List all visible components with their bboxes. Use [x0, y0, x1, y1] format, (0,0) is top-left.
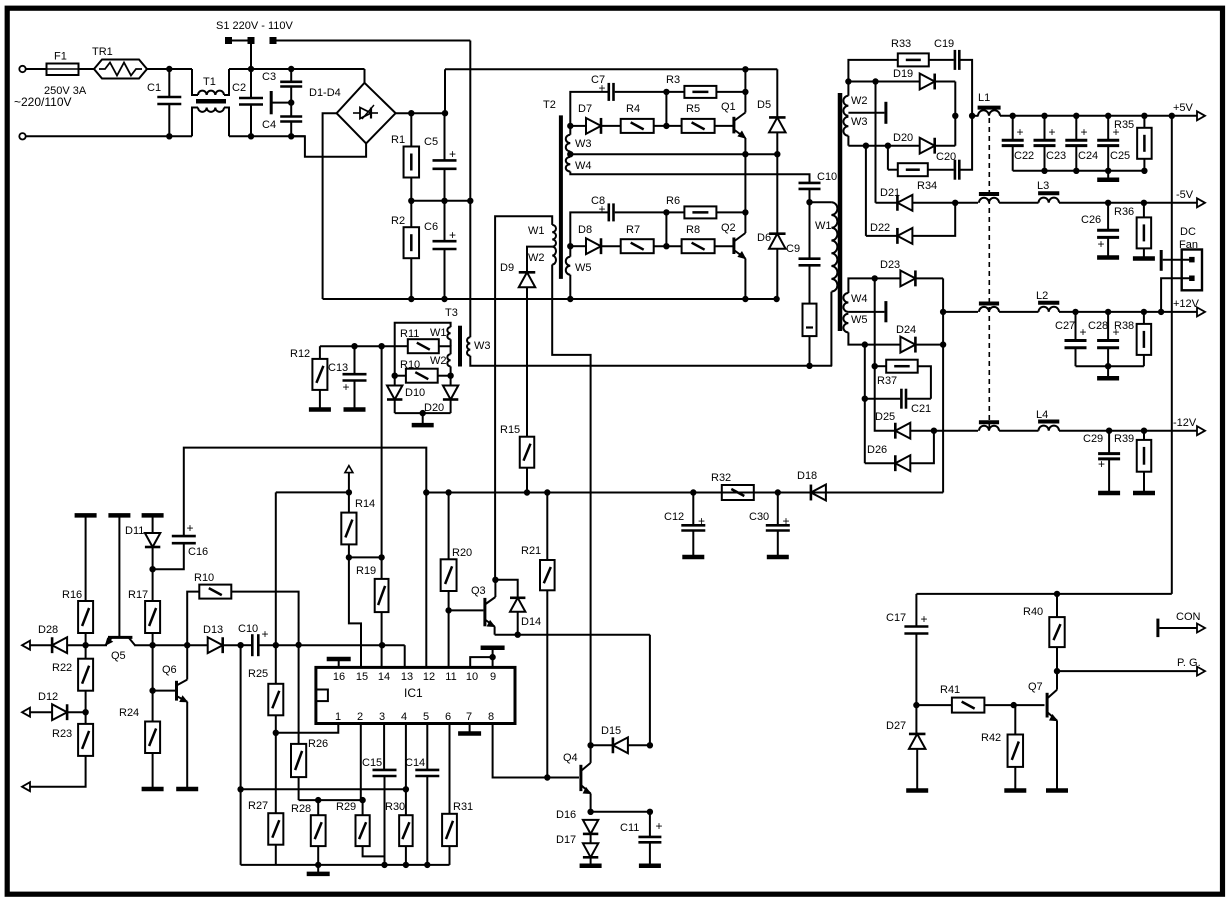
svg-text:DC: DC — [1180, 226, 1196, 238]
resistor R26 — [298, 733, 300, 744]
svg-text:R34: R34 — [917, 180, 937, 192]
resistor R10 control — [187, 592, 199, 646]
C16 bottom wire — [153, 543, 184, 569]
R17 bottom lead — [152, 633, 154, 645]
transistor Q5 — [108, 636, 132, 639]
svg-text:D20: D20 — [893, 132, 913, 144]
svg-text:W3: W3 — [474, 340, 491, 352]
wire R37 right — [918, 366, 931, 399]
+12V rail start — [943, 311, 978, 313]
T3 W3 bottom lead to W5 return wire — [470, 356, 832, 366]
svg-text:C10: C10 — [238, 623, 258, 635]
wire R4 to R5 — [654, 125, 682, 127]
R27 bottom lead — [275, 845, 277, 865]
capacitor C17 — [915, 594, 917, 627]
wire D19 cathode down to L1 — [954, 82, 956, 146]
svg-text:C20: C20 — [936, 151, 956, 163]
svg-text:C4: C4 — [262, 119, 276, 131]
svg-text:R42: R42 — [981, 732, 1001, 744]
resistor R29 — [356, 815, 370, 846]
input terminal bottom — [19, 133, 25, 139]
resistor R30 — [399, 815, 413, 846]
W1 bottom lead — [830, 292, 832, 367]
pin7 ground — [469, 724, 471, 732]
R26 bottom to R28-R29 bus — [298, 777, 300, 800]
svg-text:C14: C14 — [405, 757, 425, 769]
+5V filter ground bus — [1013, 170, 1145, 172]
svg-text:S1 220V - 110V: S1 220V - 110V — [216, 20, 294, 32]
svg-text:D23: D23 — [880, 259, 900, 271]
svg-text:L2: L2 — [1036, 290, 1048, 302]
node loop column top — [238, 643, 243, 648]
svg-text:R30: R30 — [385, 801, 405, 813]
node R3 to Q1 collector column — [743, 89, 748, 94]
wire C4 to bridge AC2 — [291, 136, 366, 156]
svg-text:3: 3 — [379, 711, 385, 723]
resistor R23 — [78, 724, 93, 756]
ground bottom rail — [317, 865, 319, 874]
wire R33 to C19 — [929, 59, 954, 61]
wire D22 up to -5V rail — [912, 203, 955, 236]
wire C8 to R6 node — [615, 211, 685, 213]
transformer T3 core — [458, 326, 462, 367]
svg-text:C23: C23 — [1046, 150, 1066, 162]
wire node to main transformer W1 — [810, 201, 832, 203]
svg-text:D9: D9 — [500, 262, 514, 274]
svg-text:W3: W3 — [575, 138, 592, 150]
svg-text:R24: R24 — [119, 707, 139, 719]
wire D21 to -5V rail — [912, 202, 978, 204]
wire R41 to Q7 base — [984, 704, 1044, 706]
wire Q5 collector to D13 row — [135, 644, 208, 646]
resistor R19 — [375, 579, 389, 612]
Q4 emitter to D16 — [590, 794, 592, 812]
transformer T2 core — [559, 115, 563, 279]
W5 bottom lead to D24 — [848, 332, 900, 344]
svg-text:C25: C25 — [1110, 150, 1130, 162]
wire to D23 — [875, 277, 901, 279]
svg-text:D27: D27 — [886, 720, 906, 732]
svg-text:R2: R2 — [391, 215, 405, 227]
svg-text:+: + — [1016, 125, 1023, 139]
node C9 return on wire — [807, 363, 812, 368]
svg-text:D28: D28 — [38, 624, 58, 636]
svg-text:R4: R4 — [626, 103, 640, 115]
svg-text:R15: R15 — [500, 424, 520, 436]
svg-text:+: + — [655, 819, 662, 833]
svg-text:+: + — [449, 147, 456, 161]
pin4 column — [405, 724, 407, 816]
svg-text:+: + — [598, 81, 605, 95]
Q6 base wire — [153, 690, 175, 692]
capacitor C15 — [373, 769, 397, 772]
diode D22 — [866, 235, 897, 237]
svg-text:C29: C29 — [1083, 433, 1103, 445]
svg-text:R25: R25 — [248, 668, 268, 680]
wire arrow to D28 — [30, 644, 52, 646]
svg-text:C12: C12 — [664, 511, 684, 523]
+12V rail — [999, 311, 1038, 313]
node R4-R5 junction — [664, 123, 669, 128]
svg-text:C1: C1 — [147, 82, 161, 94]
svg-text:C24: C24 — [1078, 150, 1098, 162]
svg-text:12: 12 — [423, 671, 435, 683]
resistor R31 — [442, 814, 457, 846]
R20 to Q3 base node — [448, 591, 450, 667]
T2 winding W4 — [566, 157, 571, 172]
D9 anode lead down to R15 — [526, 287, 528, 436]
transistor Q4 — [579, 765, 582, 791]
R14 to R19 node link — [349, 556, 382, 558]
wire W2 node to D19 — [848, 81, 919, 83]
T3 winding W3 — [467, 337, 470, 356]
wire W2 node down to D21 — [875, 82, 877, 203]
capacitor C11 — [649, 812, 651, 837]
mid rail R1-R2 C5-C6 — [411, 200, 470, 202]
node R21 top — [545, 490, 550, 495]
wire D18 to +12V rectifier column — [826, 492, 943, 494]
diode D26 row — [865, 462, 896, 464]
resistor R25 — [275, 645, 277, 684]
wire arrow to D12 — [30, 711, 52, 713]
svg-text:D24: D24 — [896, 324, 916, 336]
C15 bottom lead — [384, 776, 386, 856]
primary bottom rail — [323, 298, 777, 300]
transistor Q1 — [732, 117, 735, 134]
feedback bus to pin4 — [241, 788, 406, 790]
node W3-W4 tap — [568, 152, 573, 157]
wire bridge negative to bottom rail — [323, 113, 337, 299]
wire Q3 collector to D14 — [495, 580, 517, 598]
wire bridge AC1 top — [364, 69, 366, 83]
svg-text:C5: C5 — [424, 136, 438, 148]
pin16 terminal bar — [338, 659, 340, 667]
svg-text:-5V: -5V — [1176, 189, 1194, 201]
diode D20 output — [920, 138, 935, 154]
svg-text:R26: R26 — [308, 738, 328, 750]
diode D10 — [387, 386, 402, 400]
feedback node wire R12 — [320, 345, 395, 347]
capacitor C21 — [865, 398, 900, 400]
resistor R38 — [1143, 312, 1145, 324]
pin1 wire to R26 — [276, 724, 339, 733]
svg-text:W1: W1 — [815, 220, 832, 232]
transistor Q6 — [175, 681, 178, 701]
R40 bottom to PG node — [1056, 647, 1058, 671]
resistor R7 — [621, 239, 654, 253]
pin3 column to C15 — [383, 724, 385, 770]
capacitor C22 — [1012, 116, 1014, 140]
+12V arrow — [1197, 307, 1205, 316]
svg-text:R27: R27 — [248, 800, 268, 812]
svg-text:1: 1 — [335, 711, 341, 723]
svg-text:R12: R12 — [290, 348, 310, 360]
node C3-C4 midpoint — [289, 100, 294, 105]
row corner down to D15 — [649, 635, 651, 746]
svg-text:C2: C2 — [232, 82, 246, 94]
svg-text:R17: R17 — [128, 589, 148, 601]
diode D14 — [510, 598, 525, 612]
ground at C28 — [1107, 366, 1109, 378]
D17 ground — [590, 857, 592, 864]
svg-text:C27: C27 — [1055, 320, 1075, 332]
svg-text:W1: W1 — [528, 225, 545, 237]
wire input top to fuse — [26, 68, 47, 70]
svg-text:D21: D21 — [880, 187, 900, 199]
svg-text:D18: D18 — [797, 470, 817, 482]
resistor R39 — [1143, 431, 1145, 440]
capacitor C19 — [954, 50, 957, 70]
capacitor C4 — [280, 115, 302, 118]
svg-text:C3: C3 — [262, 71, 276, 83]
svg-text:+: + — [782, 514, 789, 528]
capacitor C8 left leg — [570, 212, 607, 246]
svg-text:R38: R38 — [1114, 320, 1134, 332]
ground bar R39 — [1133, 491, 1155, 496]
diode D11 — [152, 515, 154, 533]
svg-text:Q4: Q4 — [563, 752, 578, 764]
left column D24 to D26 — [864, 345, 866, 464]
resistor R28 top lead — [317, 800, 319, 815]
resistor R40 — [1056, 594, 1058, 617]
Q4 collector from W2 column — [590, 745, 592, 763]
svg-text:+: + — [1080, 125, 1087, 139]
fan connector box — [1182, 250, 1202, 291]
capacitor C9 — [809, 202, 811, 259]
node C4 bottom — [289, 134, 294, 139]
diode D9 — [519, 272, 536, 287]
T2 winding W5 — [566, 257, 571, 275]
wire W3 to D20 — [848, 145, 919, 147]
svg-text:W1: W1 — [430, 327, 447, 339]
wire C10 to W1 node — [809, 189, 811, 202]
diode D12 — [52, 704, 67, 720]
wire C10 to pin13 corner — [259, 644, 404, 646]
R24 ground — [152, 753, 154, 787]
ground T3 clamp — [422, 413, 424, 425]
thermistor TR1 — [94, 60, 147, 79]
R16 top lead — [85, 515, 87, 601]
left column R11 box — [394, 346, 396, 386]
CON terminal bar — [1156, 619, 1159, 638]
snubber R34 — [887, 146, 889, 170]
L1 coupled winding on +12V — [979, 302, 999, 306]
resistor R11 — [395, 345, 408, 347]
C13 ground — [344, 407, 366, 412]
Q3 collector node — [493, 577, 498, 582]
fuse F1 — [47, 64, 79, 76]
ground bar C29 — [1098, 491, 1120, 496]
R21 lower column to pin8 row — [546, 590, 548, 777]
bottom ground rail — [241, 864, 450, 866]
wire R3 right — [716, 91, 745, 93]
diode D23 — [900, 270, 915, 286]
svg-text:R22: R22 — [52, 662, 72, 674]
Q7 emitter ground — [1056, 721, 1058, 789]
svg-text:14: 14 — [378, 671, 390, 683]
+310V rail — [445, 68, 777, 70]
ground bar R36 — [1133, 256, 1155, 261]
svg-text:15: 15 — [356, 671, 368, 683]
snubber column D23 node down — [874, 278, 876, 366]
svg-text:+: + — [342, 380, 349, 394]
wire T1 to C2 top — [229, 68, 365, 70]
R28-R29 bus — [299, 799, 363, 801]
node R6 left — [664, 210, 669, 215]
svg-text:W5: W5 — [575, 262, 592, 274]
R14 bottom link — [348, 544, 350, 557]
svg-text:250V 3A: 250V 3A — [44, 85, 87, 97]
svg-text:D13: D13 — [203, 624, 223, 636]
svg-text:R7: R7 — [626, 224, 640, 236]
svg-text:C28: C28 — [1088, 320, 1108, 332]
svg-text:C26: C26 — [1081, 214, 1101, 226]
resistor R24 — [145, 722, 160, 754]
svg-text:T1: T1 — [203, 76, 216, 88]
left terminal arrow 3 — [22, 782, 30, 791]
R17-R24 column — [152, 645, 154, 721]
svg-text:+: + — [1048, 125, 1055, 139]
resistor R12 — [319, 346, 321, 359]
wire C19 to L1 node — [961, 60, 973, 116]
svg-text:C15: C15 — [362, 757, 382, 769]
capacitor C6 — [444, 201, 446, 241]
resistor R32 — [722, 485, 754, 500]
node R3 left — [664, 89, 669, 94]
C14 bottom lead — [426, 776, 428, 865]
transformer T1 common-mode choke — [192, 69, 198, 95]
svg-text:R8: R8 — [686, 224, 700, 236]
Q3 output row — [495, 634, 650, 636]
C12 ground — [682, 555, 704, 560]
capacitor C10 snubber — [799, 182, 821, 185]
CON arrow — [1197, 624, 1205, 633]
svg-text:W2: W2 — [851, 95, 868, 107]
diode D28 — [52, 637, 67, 653]
svg-text:+: + — [1097, 237, 1104, 251]
node D7 anode — [568, 123, 573, 128]
node C1 top — [167, 66, 172, 71]
+5V rail — [972, 115, 978, 117]
W3 bottom lead — [847, 136, 849, 146]
resistor R8 — [682, 239, 715, 253]
pin2 column — [360, 724, 362, 801]
fan wire positive — [1163, 259, 1190, 261]
P.G. arrow — [1197, 667, 1205, 676]
svg-text:C21: C21 — [911, 403, 931, 415]
svg-text:2: 2 — [357, 711, 363, 723]
svg-text:R5: R5 — [686, 103, 700, 115]
diode D16 — [583, 820, 598, 834]
svg-text:D25: D25 — [875, 411, 895, 423]
diode D8 — [573, 245, 586, 247]
wire D23 cathode down — [942, 278, 944, 312]
main transformer core — [838, 93, 843, 331]
W5 bottom lead — [569, 275, 571, 299]
center tap bar W2-W3 — [884, 102, 887, 124]
diode D20 clamp — [443, 386, 458, 400]
svg-text:C9: C9 — [786, 243, 800, 255]
+12V filter ground bus — [1076, 365, 1144, 367]
node C3 top — [289, 66, 294, 71]
Q7 collector — [1056, 671, 1058, 690]
svg-text:11: 11 — [445, 671, 456, 683]
R23 bottom to left arrow 3 — [30, 756, 86, 787]
resistor R37 — [875, 365, 887, 367]
svg-text:F1: F1 — [54, 51, 67, 63]
svg-text:C13: C13 — [328, 362, 348, 374]
svg-text:L4: L4 — [1036, 409, 1048, 421]
capacitor C24 — [1075, 116, 1077, 140]
svg-text:R10: R10 — [400, 359, 420, 371]
wire C16 top feed — [184, 448, 426, 536]
R19 to pin14 — [381, 612, 383, 667]
svg-text:C22: C22 — [1014, 150, 1034, 162]
P.G. wire — [1057, 670, 1197, 672]
W2 top lead and snubber loop — [848, 60, 897, 96]
IC1 notch — [316, 690, 328, 702]
transistor Q3 — [483, 598, 486, 626]
svg-text:R37: R37 — [877, 375, 897, 387]
wire input bottom — [26, 135, 192, 137]
polarity box below C9 — [803, 304, 817, 337]
svg-text:D19: D19 — [893, 68, 913, 80]
clamp bottom bus — [394, 400, 396, 414]
svg-text:D14: D14 — [521, 616, 541, 628]
svg-text:W2: W2 — [528, 252, 545, 264]
left rail segment to R14 — [276, 491, 349, 493]
D27 ground — [916, 749, 918, 788]
R42 ground — [1014, 767, 1016, 789]
T2 winding W2 drive — [552, 247, 556, 265]
svg-text:R29: R29 — [336, 801, 356, 813]
svg-text:+: + — [186, 521, 193, 535]
capacitor C30 — [777, 493, 779, 526]
R21 column upper — [546, 493, 548, 561]
svg-text:R19: R19 — [356, 565, 376, 577]
svg-text:Q3: Q3 — [471, 585, 486, 597]
svg-text:D17: D17 — [556, 834, 576, 846]
wire D25 row — [875, 366, 896, 431]
wire R8 to Q2 base — [715, 245, 733, 247]
svg-text:R16: R16 — [62, 589, 82, 601]
diode D15 — [591, 744, 613, 746]
capacitor C8 — [607, 203, 610, 221]
svg-text:C16: C16 — [188, 546, 208, 558]
svg-text:D11: D11 — [125, 525, 144, 537]
wire D26 up to -12V node — [910, 431, 934, 464]
svg-text:+: + — [920, 612, 927, 626]
svg-text:T2: T2 — [543, 99, 556, 111]
column D18 to D24 node — [942, 345, 944, 493]
W2 top tap to D9 — [527, 247, 552, 272]
supply arrow above R14 — [345, 466, 353, 473]
+5V arrow — [1197, 111, 1205, 120]
svg-text:D22: D22 — [870, 222, 890, 234]
terminal bar D11 — [142, 513, 164, 518]
svg-text:C11: C11 — [620, 822, 639, 834]
resistor R14 — [341, 513, 356, 545]
secondary winding W5 — [843, 314, 848, 333]
svg-text:R6: R6 — [666, 195, 680, 207]
wire D24 column to +12V rail — [942, 312, 944, 345]
wire R6 right — [716, 211, 745, 213]
svg-text:9: 9 — [490, 671, 496, 683]
svg-text:R20: R20 — [452, 547, 472, 559]
wire D28 to Q5 emitter — [67, 644, 107, 646]
capacitor C14 — [415, 769, 439, 772]
secondary winding W3 — [843, 117, 848, 136]
